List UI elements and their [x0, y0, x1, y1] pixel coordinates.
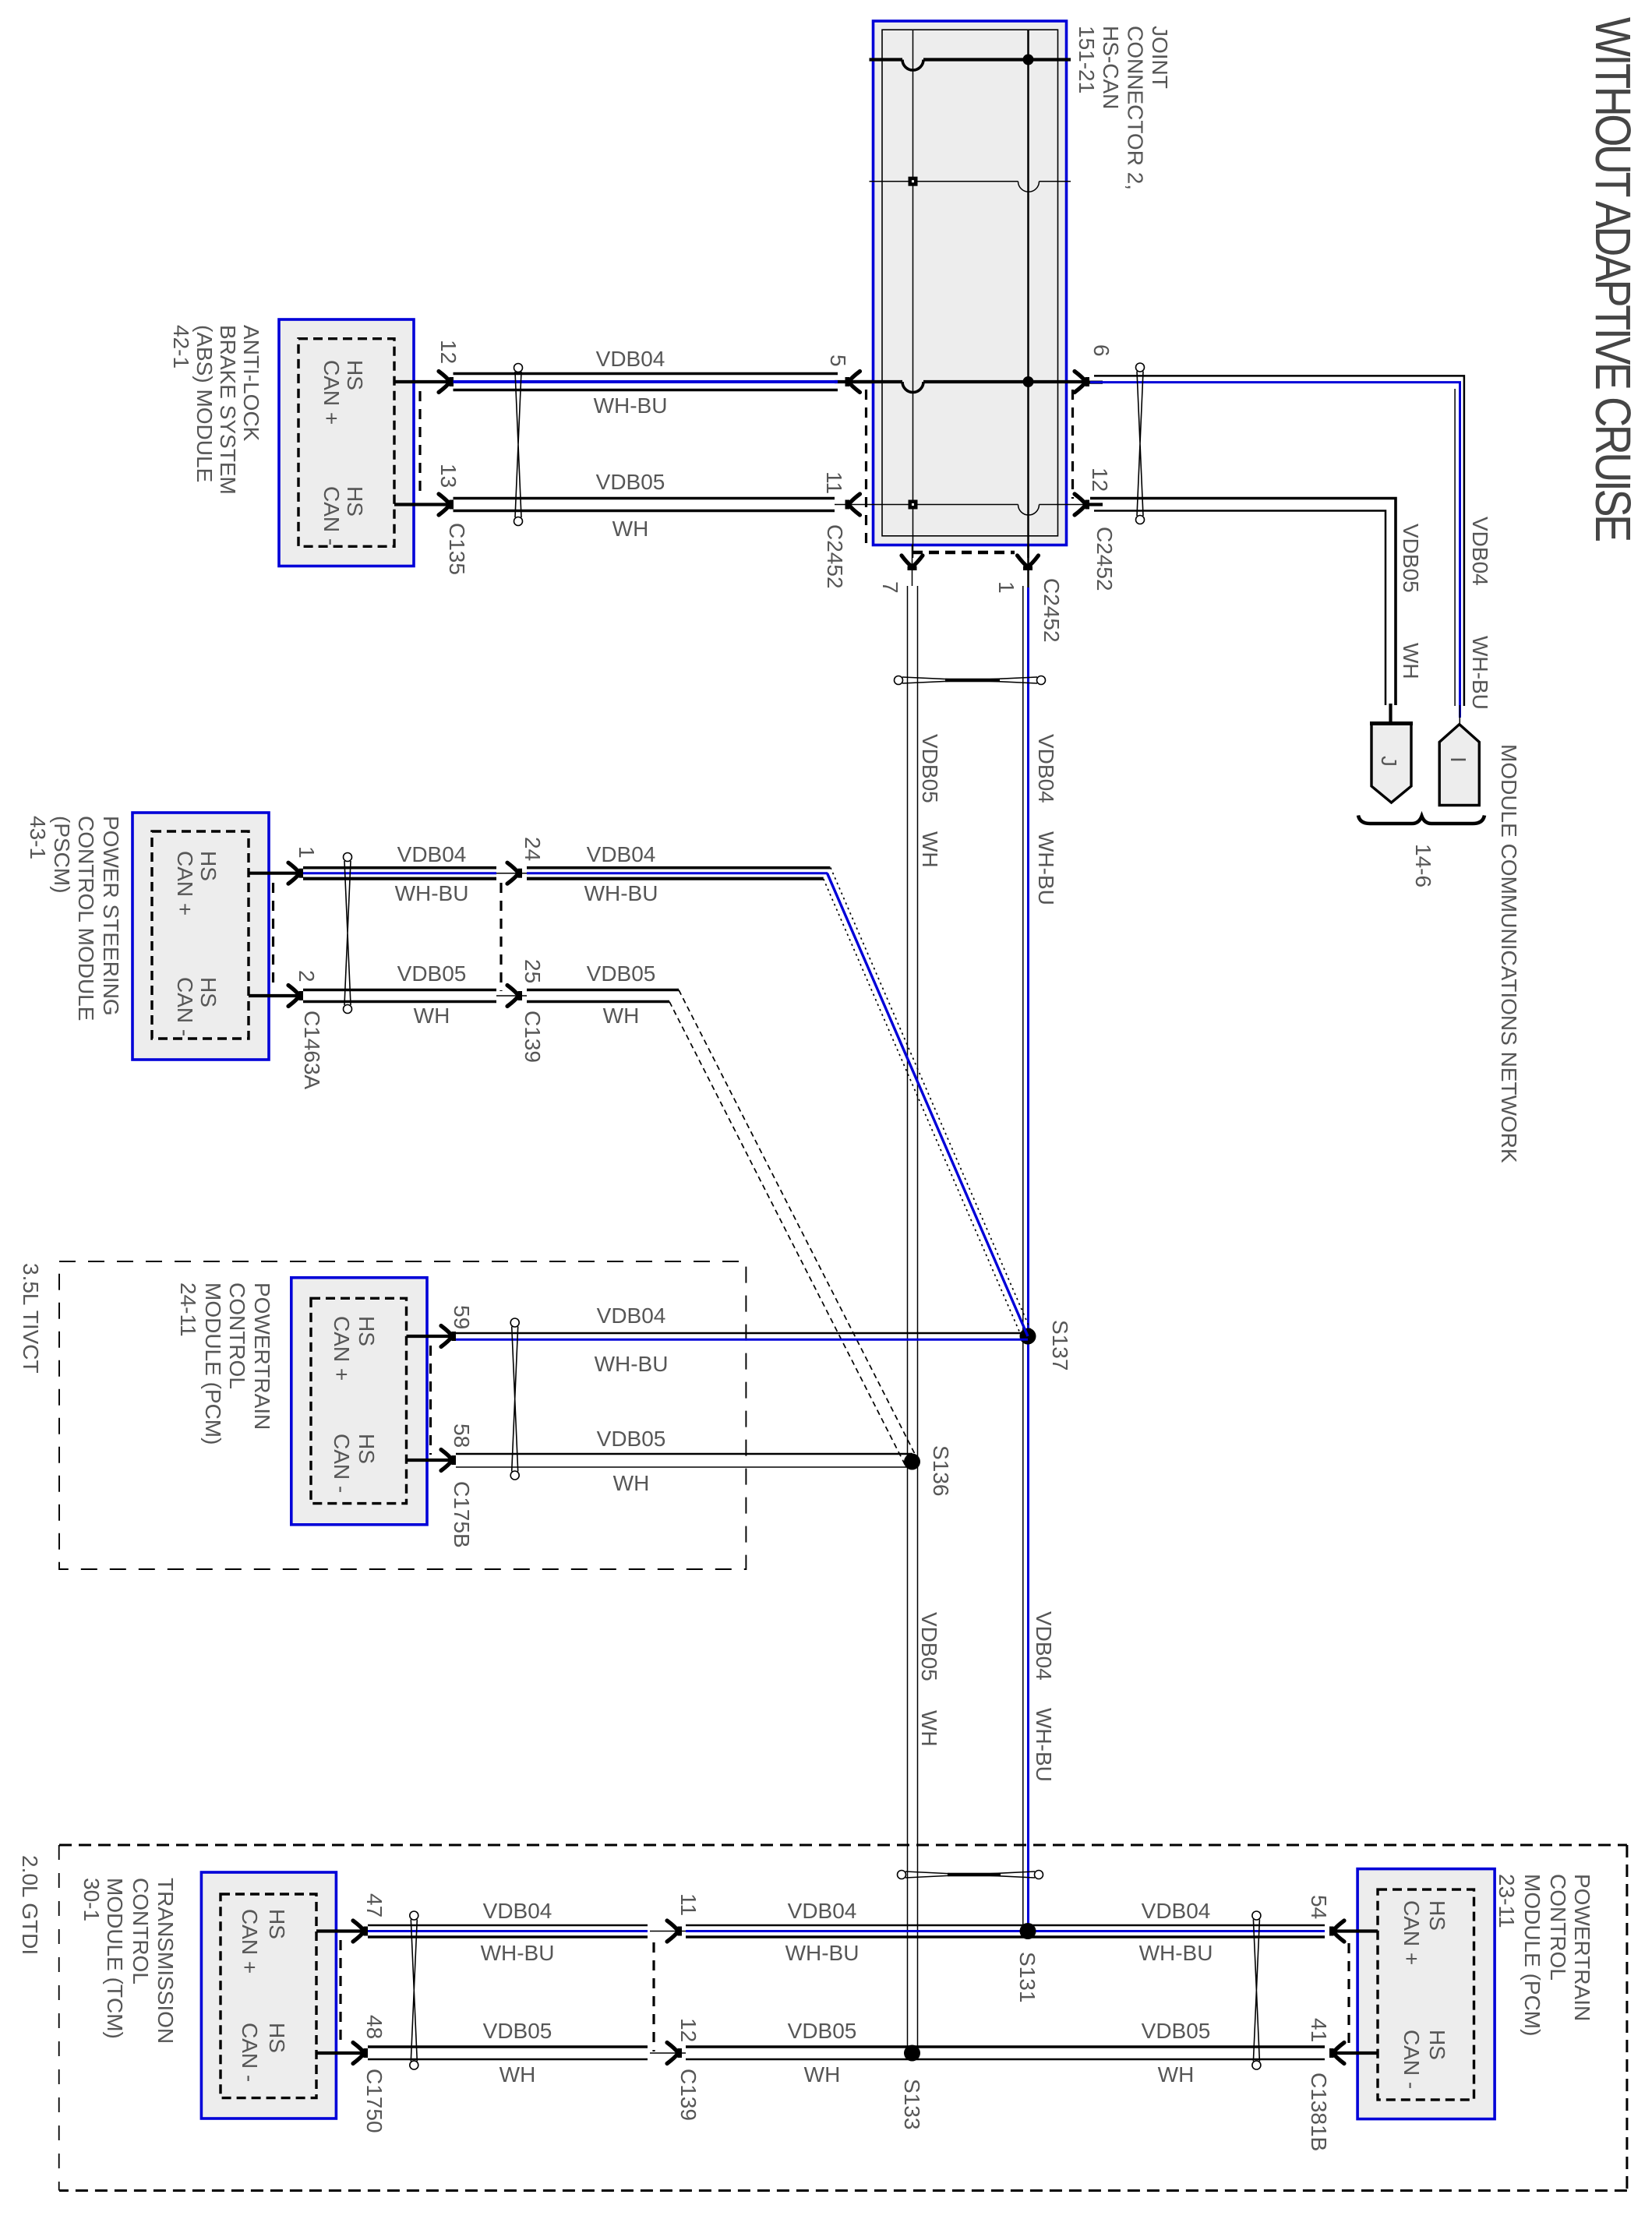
svg-text:CAN +: CAN +: [173, 851, 197, 915]
svg-text:WH: WH: [917, 1710, 941, 1747]
svg-text:WH: WH: [499, 2062, 536, 2087]
svg-text:VDB05: VDB05: [597, 1427, 666, 1451]
2.0L GTDI dashed box: [59, 1845, 1627, 2191]
C2452 dashed connector line bottom: [912, 551, 1015, 555]
pin 11 arrow (C2452): [845, 494, 860, 515]
C139 pin 11 lead: [650, 1931, 686, 1932]
svg-text:59: 59: [450, 1305, 474, 1329]
PCM (23-11) module box: [1357, 1869, 1495, 2119]
svg-text:S133: S133: [900, 2079, 924, 2129]
svg-text:WH: WH: [1158, 2062, 1195, 2087]
svg-text:24: 24: [521, 837, 545, 861]
ABS module box: [279, 319, 414, 566]
svg-text:POWER STEERING: POWER STEERING: [99, 816, 123, 1016]
svg-text:43-1: 43-1: [26, 816, 50, 859]
svg-text:WH-BU: WH-BU: [1468, 636, 1492, 710]
svg-text:VDB04: VDB04: [1468, 517, 1492, 586]
svg-text:VDB04: VDB04: [397, 842, 467, 866]
twisted pair symbol PCM 24-11: [510, 1318, 519, 1327]
row C junction dot on right bar: [1023, 376, 1034, 387]
svg-text:HS: HS: [355, 1434, 379, 1464]
row A hop over left bar: [902, 60, 923, 71]
svg-text:VDB04: VDB04: [1034, 734, 1058, 803]
row A junction dot on right bar: [1023, 55, 1034, 65]
svg-text:WITHOUT ADAPTIVE CRUISE: WITHOUT ADAPTIVE CRUISE: [1585, 17, 1640, 541]
svg-text:MODULE (PCM): MODULE (PCM): [201, 1282, 225, 1445]
TCM pin 47 lead: [316, 1929, 362, 1932]
wire lead into I symbol: [1459, 705, 1460, 725]
bus bar VDB05 (left, thin): [912, 30, 914, 558]
splice S133: [904, 2045, 920, 2062]
row C hop over left bar: [902, 382, 923, 393]
PCM pin 41 arrow (C1381B): [1329, 2043, 1344, 2064]
wire VDB04 WH-BU C139 to S137 (triple then diagonal): [527, 866, 830, 870]
PCM pin 59 lead: [407, 1335, 451, 1338]
C139 pin 12 lead: [650, 2052, 686, 2054]
C139 pin 12 arrow: [667, 2043, 682, 2064]
C139 pin 24 lead: [496, 873, 527, 874]
pin 5 arrow (C2452): [845, 372, 860, 393]
svg-text:C135: C135: [445, 523, 469, 575]
svg-text:2: 2: [295, 970, 319, 982]
PSCM pin 1 lead: [249, 872, 298, 875]
svg-text:HS: HS: [265, 1909, 289, 1939]
svg-text:CAN -: CAN -: [319, 486, 344, 545]
svg-text:C175B: C175B: [450, 1481, 474, 1548]
svg-text:VDB04: VDB04: [587, 842, 656, 866]
ABS pin 13 arrow (C135): [439, 494, 454, 515]
svg-text:HS: HS: [343, 360, 367, 390]
ABS inner dashed box: [298, 339, 394, 547]
bus bar VDB04 (right, thick): [1027, 30, 1029, 558]
svg-text:11: 11: [822, 471, 846, 494]
ABS pin 12 arrow (C135): [439, 372, 454, 393]
svg-text:2.0L GTDI: 2.0L GTDI: [18, 1855, 42, 1955]
svg-text:WH: WH: [804, 2062, 841, 2087]
svg-text:CONTROL: CONTROL: [129, 1878, 153, 1984]
splice S136: [904, 1454, 920, 1470]
twisted pair symbol PSCM: [344, 853, 352, 862]
svg-text:VDB04: VDB04: [596, 347, 665, 371]
wire diagonal VDB04 to S137 (blue with dotted flanks): [828, 873, 1029, 1336]
svg-text:WH-BU: WH-BU: [594, 393, 668, 418]
wire VDB05 WH TCM to C139 (pair): [368, 2045, 648, 2048]
wire VDB05 WH C139 toward S136 (pair then dashed diagonal): [527, 989, 679, 992]
svg-text:CONNECTOR 2,: CONNECTOR 2,: [1124, 26, 1148, 190]
row D wire pin11-pin12 (thin, joins left bar): [835, 504, 1094, 506]
svg-text:WH-BU: WH-BU: [1034, 831, 1058, 905]
twisted pair symbol ABS: [514, 364, 523, 372]
svg-text:47: 47: [362, 1893, 387, 1917]
PSCM pin 1 arrow (C1463A): [288, 863, 303, 884]
svg-text:C1463A: C1463A: [300, 1011, 324, 1090]
svg-text:MODULE (PCM): MODULE (PCM): [1520, 1874, 1544, 2036]
svg-text:WH: WH: [918, 831, 942, 868]
off-page connector I: [1439, 725, 1479, 806]
C2452 dashed connector line left: [865, 390, 867, 545]
TCM module box: [201, 1872, 336, 2118]
row C left lead to pin 5: [835, 380, 874, 383]
row B hop over right bar: [1018, 182, 1040, 192]
svg-text:POWERTRAIN: POWERTRAIN: [250, 1282, 274, 1430]
C2452 dashed connector line right: [1071, 390, 1074, 499]
svg-text:11: 11: [676, 1893, 701, 1916]
row B wire (thin, joins left bar): [870, 181, 1071, 182]
twisted pair symbol pins 6/12: [1136, 363, 1145, 372]
svg-text:C2452: C2452: [1040, 578, 1064, 643]
C1750 dashed connector line: [339, 1940, 341, 2047]
splice S131: [1020, 1923, 1036, 1939]
PCM pin 54 arrow (C1381B): [1329, 1921, 1344, 1942]
svg-text:54: 54: [1307, 1895, 1331, 1919]
C139 pin 11 arrow: [667, 1921, 682, 1942]
svg-text:VDB05: VDB05: [918, 734, 942, 803]
C139 pin 25 lead: [496, 995, 527, 997]
pin 12 arrow (C2452): [1075, 494, 1089, 515]
svg-text:CAN +: CAN +: [330, 1316, 354, 1381]
svg-text:CONTROL: CONTROL: [1546, 1874, 1570, 1981]
svg-text:WH: WH: [612, 517, 649, 541]
svg-text:30-1: 30-1: [79, 1878, 104, 1921]
TCM pin 48 arrow (C1750): [353, 2043, 368, 2064]
svg-text:VDB04: VDB04: [788, 1899, 857, 1923]
pin 7 exit arrow (down): [902, 556, 923, 570]
svg-text:CONTROL MODULE: CONTROL MODULE: [74, 816, 98, 1021]
PCM pin 58 lead: [407, 1459, 451, 1462]
svg-text:41: 41: [1307, 2018, 1331, 2042]
svg-text:WH-BU: WH-BU: [584, 881, 658, 905]
pin 7 exit lead: [912, 545, 913, 586]
svg-text:JOINT: JOINT: [1148, 26, 1172, 89]
svg-text:VDB05: VDB05: [917, 1612, 941, 1681]
wire lead into J symbol: [1389, 704, 1392, 724]
TCM pin 48 lead: [316, 2051, 362, 2055]
svg-text:151-21: 151-21: [1075, 26, 1099, 93]
svg-text:12: 12: [1088, 467, 1112, 492]
svg-text:12: 12: [676, 2018, 701, 2042]
svg-text:VDB05: VDB05: [596, 470, 665, 494]
pin 6 arrow (C2452): [1075, 372, 1089, 393]
twisted pair symbol on vertical buses (upper): [895, 676, 903, 685]
PSCM pin 2 lead: [249, 994, 298, 997]
joint connector box (blue): [874, 21, 1067, 545]
svg-text:C1750: C1750: [362, 2069, 387, 2133]
PCM (24-11) module box: [291, 1278, 427, 1525]
svg-text:C139: C139: [521, 1011, 545, 1063]
svg-text:S136: S136: [929, 1445, 953, 1496]
C139 in-line connector dashed line: [499, 883, 502, 991]
svg-text:(PSCM): (PSCM): [50, 816, 74, 894]
svg-text:C1381B: C1381B: [1307, 2073, 1331, 2151]
C135 dashed connector line: [418, 391, 421, 499]
svg-text:58: 58: [450, 1423, 474, 1448]
svg-text:WH-BU: WH-BU: [595, 1352, 669, 1376]
svg-text:CAN -: CAN -: [1400, 2030, 1424, 2089]
svg-text:VDB05: VDB05: [788, 2019, 857, 2043]
wire VDB05 WH PCM to S136 (pair): [456, 1453, 912, 1455]
PCM pin 59 arrow (C175B): [441, 1326, 456, 1347]
svg-text:VDB05: VDB05: [397, 961, 467, 986]
svg-text:MODULE (TCM): MODULE (TCM): [103, 1878, 127, 2039]
svg-text:BRAKE SYSTEM: BRAKE SYSTEM: [216, 325, 240, 495]
svg-text:5: 5: [826, 355, 850, 367]
TCM inner dashed box: [221, 1894, 316, 2098]
C139 pin 25 arrow: [507, 986, 522, 1007]
wire VDB05 WH ABS to C2452 (pair): [454, 497, 835, 500]
wire VDB05 WH vertical bus (pair): [907, 586, 909, 2052]
svg-text:WH-BU: WH-BU: [1032, 1708, 1056, 1782]
svg-text:POWERTRAIN: POWERTRAIN: [1570, 1874, 1594, 2021]
svg-text:C2452: C2452: [1093, 527, 1117, 591]
svg-text:C2452: C2452: [823, 524, 847, 589]
svg-text:VDB04: VDB04: [1142, 1899, 1211, 1923]
wire VDB04 WH-BU pin6 (black+blue pair, turns down to I): [1094, 376, 1464, 706]
svg-text:VDB05: VDB05: [1399, 524, 1423, 593]
svg-text:25: 25: [521, 959, 545, 983]
wire VDB04 WH-BU TCM to C139 (triple): [368, 1924, 648, 1927]
svg-text:6: 6: [1089, 344, 1114, 357]
PSCM module box: [132, 813, 269, 1060]
svg-text:S137: S137: [1048, 1320, 1072, 1371]
svg-text:WH: WH: [414, 1004, 450, 1028]
svg-text:CONTROL: CONTROL: [225, 1282, 249, 1389]
svg-text:I: I: [1446, 757, 1470, 763]
twisted pair symbol TCM: [410, 1911, 418, 1920]
svg-text:VDB04: VDB04: [1032, 1611, 1056, 1681]
svg-text:J: J: [1377, 756, 1401, 767]
wire dashed diagonal VDB05 to S136: [679, 990, 916, 1456]
PCM pin 58 arrow (C175B): [441, 1450, 456, 1471]
svg-text:12: 12: [436, 340, 461, 364]
C139 pin 24 arrow: [507, 863, 522, 884]
svg-text:HS: HS: [1425, 2030, 1449, 2060]
svg-text:13: 13: [436, 464, 461, 488]
TCM pin 47 arrow (C1750): [353, 1921, 368, 1942]
svg-text:1: 1: [994, 581, 1018, 594]
wire VDB05 WH C139 to PCM (pair through S133): [686, 2045, 1325, 2048]
svg-text:HS-CAN: HS-CAN: [1099, 26, 1123, 109]
svg-text:VDB04: VDB04: [597, 1304, 666, 1328]
wire VDB04 WH-BU ABS to C2452 (pair): [454, 372, 838, 376]
svg-text:WH-BU: WH-BU: [785, 1941, 860, 1965]
C1463A dashed connector line: [272, 883, 274, 990]
svg-text:7: 7: [878, 581, 902, 594]
svg-text:VDB05: VDB05: [1142, 2019, 1211, 2043]
joint connector inner gray box: [882, 30, 1058, 536]
splice S137: [1020, 1328, 1036, 1345]
svg-text:(ABS) MODULE: (ABS) MODULE: [192, 325, 217, 482]
svg-text:CAN +: CAN +: [319, 360, 344, 425]
3.5L TIVCT dashed box: [59, 1261, 746, 1569]
off-page connector J: [1371, 723, 1411, 803]
svg-text:VDB04: VDB04: [483, 1899, 552, 1923]
row D hop over right bar: [1018, 505, 1040, 516]
svg-text:WH-BU: WH-BU: [395, 881, 469, 905]
ABS pin 12 lead: [394, 380, 448, 383]
PSCM inner dashed box: [152, 831, 249, 1039]
svg-text:VDB05: VDB05: [483, 2019, 552, 2043]
brace grouping J and I: [1358, 816, 1484, 824]
svg-text:HS: HS: [196, 851, 221, 881]
row A wire (thick, joins right bar): [870, 58, 1071, 61]
svg-text:14-6: 14-6: [1411, 844, 1435, 887]
svg-text:42-1: 42-1: [169, 325, 193, 369]
PCM (24-11) inner dashed box: [311, 1298, 407, 1503]
svg-text:S131: S131: [1015, 1952, 1040, 2002]
C175B dashed connector line: [429, 1346, 432, 1455]
svg-text:TRANSMISSION: TRANSMISSION: [154, 1878, 178, 2044]
svg-text:CAN +: CAN +: [1400, 1900, 1424, 1965]
svg-text:24-11: 24-11: [176, 1282, 200, 1337]
row B junction dot on left bar: [909, 177, 918, 186]
svg-text:WH-BU: WH-BU: [481, 1941, 555, 1965]
svg-text:WH: WH: [613, 1471, 650, 1495]
svg-text:HS: HS: [355, 1316, 379, 1346]
C1381B dashed connector line: [1347, 1943, 1350, 2047]
row D junction dot on left bar: [909, 500, 918, 510]
wire VDB04 WH-BU C139 to PCM (triple through S131): [686, 1924, 1325, 1927]
svg-text:VDB05: VDB05: [587, 961, 656, 986]
wire VDB05 WH PSCM to C139 (pair): [303, 989, 496, 992]
svg-text:C139: C139: [676, 2069, 701, 2121]
svg-text:HS: HS: [196, 977, 221, 1007]
svg-text:HS: HS: [1425, 1900, 1449, 1931]
twisted pair symbol PCM 23-11: [1252, 1911, 1261, 1920]
wire VDB04 WH-BU PSCM to C139 (triple): [303, 866, 496, 870]
twisted pair symbol on vertical buses (lower): [898, 1871, 906, 1879]
PCM pin 54 lead: [1335, 1929, 1378, 1932]
svg-text:CAN -: CAN -: [173, 977, 197, 1036]
wire VDB04 WH-BU vertical bus (black+blue pair): [1022, 586, 1024, 1927]
row C wire pin5-pin6 (thick, joins right bar): [854, 380, 1088, 383]
svg-text:MODULE COMMUNICATIONS NETWORK: MODULE COMMUNICATIONS NETWORK: [1497, 744, 1521, 1163]
PSCM pin 2 arrow (C1463A): [288, 986, 303, 1007]
svg-text:CAN -: CAN -: [238, 2023, 262, 2082]
PCM (23-11) inner dashed box: [1378, 1889, 1474, 2100]
pin 1 exit lead: [1027, 545, 1029, 587]
PCM pin 41 lead: [1335, 2051, 1378, 2055]
svg-text:WH-BU: WH-BU: [1139, 1941, 1213, 1965]
svg-text:CAN -: CAN -: [330, 1434, 354, 1493]
pin 1 exit arrow (down): [1018, 556, 1039, 570]
svg-text:1: 1: [295, 846, 319, 859]
svg-text:ANTI-LOCK: ANTI-LOCK: [239, 325, 263, 442]
svg-text:48: 48: [362, 2015, 387, 2039]
wire VDB04 WH-BU PCM to S137 (black+blue pair): [456, 1332, 1023, 1335]
svg-text:WH: WH: [603, 1004, 640, 1028]
wire VDB05 WH pin12 (pair, turns down to J): [1090, 499, 1396, 706]
svg-text:HS: HS: [265, 2023, 289, 2053]
svg-text:3.5L TIVCT: 3.5L TIVCT: [19, 1263, 43, 1374]
svg-text:HS: HS: [343, 486, 367, 517]
C139 in-line connector dashed line (bottom): [652, 1942, 655, 2051]
ABS pin 13 lead: [394, 503, 448, 506]
svg-text:WH: WH: [1399, 643, 1423, 679]
svg-text:CAN +: CAN +: [238, 1909, 262, 1974]
svg-text:23-11: 23-11: [1495, 1874, 1519, 1928]
